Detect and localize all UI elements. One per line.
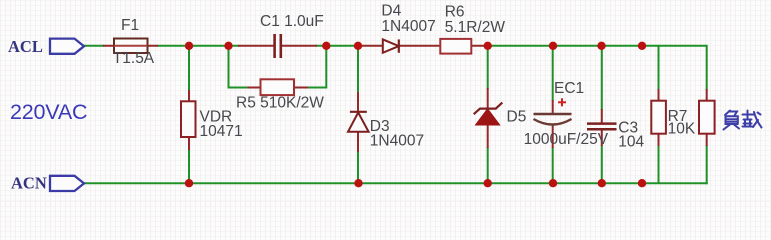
svg-text:T1.5A: T1.5A: [113, 50, 155, 67]
svg-text:1N4007: 1N4007: [381, 18, 435, 35]
svg-text:C1 1.0uF: C1 1.0uF: [260, 13, 324, 30]
svg-text:10471: 10471: [200, 123, 243, 140]
svg-text:EC1: EC1: [554, 80, 584, 97]
svg-text:D4: D4: [381, 2, 401, 19]
svg-text:ACL: ACL: [8, 37, 43, 56]
svg-text:D5: D5: [507, 109, 527, 126]
svg-text:R6: R6: [445, 3, 465, 20]
svg-text:5.1R/2W: 5.1R/2W: [445, 19, 506, 36]
svg-text:10K: 10K: [668, 121, 696, 138]
svg-text:ACN: ACN: [11, 173, 47, 192]
svg-text:220VAC: 220VAC: [10, 100, 87, 124]
svg-text:F1: F1: [121, 17, 139, 34]
svg-text:1N4007: 1N4007: [370, 132, 424, 149]
svg-text:1000uF/25V: 1000uF/25V: [524, 131, 609, 148]
svg-text:104: 104: [618, 134, 644, 151]
svg-text:R5 510K/2W: R5 510K/2W: [236, 95, 324, 112]
